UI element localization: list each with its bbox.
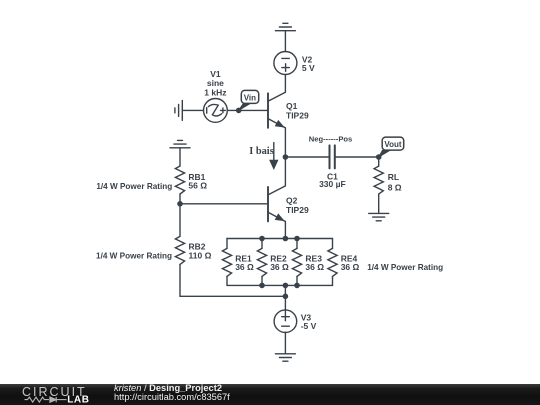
wire Q1 emitter to node <box>284 128 286 157</box>
node RB2 wire junction <box>283 294 289 300</box>
node emitter junction <box>283 154 289 160</box>
node rail bottom RE2 <box>259 283 265 289</box>
svg-text:36 Ω: 36 Ω <box>270 262 289 272</box>
svg-text:Vin: Vin <box>244 93 256 102</box>
label RE4 value <box>341 254 360 273</box>
ground (left of V1, rotated) <box>175 100 182 120</box>
wire V3 to ground <box>284 332 286 354</box>
node rail top RE2 <box>259 236 265 242</box>
wire node to Q2 collector <box>284 157 286 186</box>
label RL value <box>388 172 402 193</box>
wire RE top rail <box>227 238 333 240</box>
ground (top, above V2) <box>275 23 295 30</box>
label RB2 value <box>189 241 212 260</box>
svg-text:1 kHz: 1 kHz <box>204 88 226 98</box>
voltage source V2 <box>274 52 297 75</box>
capacitor C1 <box>330 145 335 168</box>
svg-text:I bais: I bais <box>249 146 274 157</box>
node rail top emitter <box>283 236 289 242</box>
node RB1/RB2/base <box>177 201 183 207</box>
svg-text:1/4 W Power Rating: 1/4 W Power Rating <box>96 182 172 191</box>
svg-text:TIP29: TIP29 <box>286 205 309 215</box>
wire bottom rail to V3 <box>284 285 286 310</box>
voltage source V1 (sine) <box>204 99 228 123</box>
wire RE bottom rail <box>227 284 333 286</box>
label I bais <box>249 146 274 157</box>
svg-text:Neg------Pos: Neg------Pos <box>309 134 352 143</box>
wire V1 to Vin node <box>227 109 238 111</box>
label V1 sine 1 kHz <box>204 69 226 98</box>
label RE2 value <box>270 254 289 273</box>
node rail bottom RE3 <box>294 283 300 289</box>
svg-text:1/4 W Power Rating: 1/4 W Power Rating <box>367 263 443 272</box>
resistor RE2 <box>257 239 266 286</box>
wire node to C1 <box>285 156 328 158</box>
wire C1 to Vout node <box>336 156 379 158</box>
wire Q1 base <box>239 109 268 111</box>
label Q2 TIP29 <box>286 196 309 216</box>
resistor RE3 <box>292 239 301 286</box>
label RE3 value <box>305 254 324 273</box>
resistor RB2 <box>175 204 184 296</box>
ground (below V3) <box>275 354 295 361</box>
label power rating RB1 <box>96 182 172 191</box>
label power rating RE <box>367 263 443 272</box>
label RE1 value <box>235 254 254 273</box>
current arrow I bais <box>270 143 278 169</box>
svg-text:36 Ω: 36 Ω <box>341 262 360 272</box>
footer bar <box>0 384 540 405</box>
svg-text:330 µF: 330 µF <box>319 179 346 189</box>
svg-text:Q2: Q2 <box>286 196 298 206</box>
resistor RL <box>374 157 383 213</box>
flag Vin <box>239 90 259 110</box>
footer credits <box>114 384 230 403</box>
node rail top RE3 <box>294 236 300 242</box>
ground (above RB1) <box>170 140 190 147</box>
transistor Q1 <box>268 92 285 128</box>
wire Q2 emitter down <box>284 222 286 239</box>
label Vout <box>384 140 402 149</box>
svg-text:LAB: LAB <box>67 395 89 405</box>
wire ground to V2 top <box>284 31 286 52</box>
label Q1 TIP29 <box>286 101 309 121</box>
wire V2 bottom to Q1 collector <box>284 75 286 93</box>
node Vin <box>236 108 242 114</box>
ground (below RL) <box>369 213 389 220</box>
node Vout <box>376 154 382 160</box>
wire RB2 bottom to V3 column <box>180 295 285 297</box>
svg-text:56 Ω: 56 Ω <box>188 181 207 191</box>
svg-text:8 Ω: 8 Ω <box>388 183 402 193</box>
label Neg Pos polarity <box>309 134 352 143</box>
wire node to Q2 base <box>180 203 268 205</box>
flag Vout <box>379 137 404 157</box>
svg-text:-5 V: -5 V <box>301 321 317 331</box>
svg-text:1/4 W Power Rating: 1/4 W Power Rating <box>96 252 172 261</box>
svg-text:36 Ω: 36 Ω <box>235 262 254 272</box>
CircuitLab logo <box>0 384 110 405</box>
wire ground to V1 <box>182 109 203 111</box>
svg-text:Vout: Vout <box>384 140 402 149</box>
label power rating RB2 <box>96 252 172 261</box>
svg-text:TIP29: TIP29 <box>286 111 309 121</box>
label C1 value <box>319 172 346 189</box>
svg-text:RL: RL <box>388 172 399 182</box>
transistor Q2 <box>268 186 285 222</box>
resistor RE1 <box>222 239 231 286</box>
label V2 value <box>302 54 315 73</box>
svg-text:Q1: Q1 <box>286 101 298 111</box>
label V3 value <box>301 312 317 331</box>
label Vin <box>244 93 256 102</box>
svg-text:36 Ω: 36 Ω <box>305 262 324 272</box>
svg-text:110 Ω: 110 Ω <box>189 250 212 260</box>
node rail bottom center <box>283 283 289 289</box>
svg-text:5 V: 5 V <box>302 63 315 73</box>
voltage source V3 <box>274 310 297 333</box>
resistor RE4 <box>328 239 337 286</box>
label RB1 value <box>188 172 207 191</box>
resistor RB1 <box>175 148 184 204</box>
